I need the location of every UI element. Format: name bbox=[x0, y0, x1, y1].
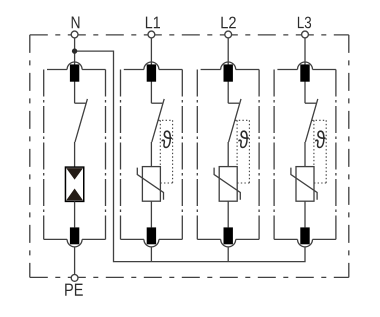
plug-in terminal block (top) N bbox=[67, 62, 82, 69]
terminal L1 (open circle) bbox=[148, 31, 155, 38]
thermal monitoring link L1 (dotted) bbox=[158, 120, 172, 183]
module enclosure box L2 varistor module (dash-dot outline) bbox=[197, 70, 259, 240]
wire N terminal to top terminal block bbox=[74, 38, 76, 103]
wire L2 terminal to top terminal block bbox=[227, 38, 229, 103]
label L3 bbox=[298, 17, 311, 29]
varistor RV3 (L3-N) bbox=[291, 167, 317, 202]
plug-in terminal block (bottom) N bbox=[67, 239, 82, 247]
wire switch to varistor L1 bbox=[150, 142, 152, 167]
label L2 bbox=[221, 17, 235, 29]
module enclosure box N-PE spark gap module (dash-dot outline) bbox=[44, 70, 106, 240]
plug-in terminal block (top) L1 bbox=[144, 62, 159, 69]
label N bbox=[72, 17, 80, 29]
spark gap F1 (N-PE gas discharge gap) bbox=[65, 167, 83, 201]
wire L1 bottom stub to bus bbox=[150, 247, 152, 262]
plug-in terminal block (bottom) L2 bbox=[221, 239, 236, 247]
plug-in terminal block (bottom) L3 bbox=[298, 239, 313, 247]
wire L1 terminal to top terminal block bbox=[150, 38, 152, 103]
module enclosure box L3 varistor module (dash-dot outline) bbox=[274, 70, 336, 240]
wire switch to varistor L3 bbox=[304, 142, 306, 167]
thermal disconnector switch N branch bbox=[75, 99, 88, 142]
node N junction dot bbox=[72, 48, 77, 53]
plug-in terminal block (top) L2 bbox=[221, 62, 236, 69]
wire switch to spark gap bbox=[74, 142, 76, 167]
thermal disconnector switch L1 branch bbox=[151, 99, 164, 142]
equipment enclosure boundary (dash-dot border) bbox=[30, 35, 349, 278]
thermal monitoring link L2 (dotted) bbox=[235, 120, 249, 183]
varistor RV2 (L2-N) bbox=[214, 167, 240, 202]
plug-in terminal block (bottom) L1 bbox=[144, 239, 159, 247]
plug-in terminal block (top) L3 bbox=[298, 62, 313, 69]
terminal L2 (open circle) bbox=[225, 31, 232, 38]
wire L3 terminal to top terminal block bbox=[304, 38, 306, 103]
varistor RV1 (L1-N) bbox=[137, 167, 163, 202]
thermal disconnector switch L2 branch bbox=[228, 99, 241, 142]
thermal disconnector switch L3 branch bbox=[305, 99, 318, 142]
wire L2 bottom stub to bus bbox=[227, 247, 229, 262]
temperature symbol ϑ L3 bbox=[315, 130, 325, 148]
wire spark gap to bottom terminal block bbox=[74, 201, 76, 227]
wire varistor to bottom terminal block L1 bbox=[150, 201, 152, 227]
temperature symbol ϑ L2 bbox=[238, 130, 248, 148]
wire varistor to bottom terminal block L3 bbox=[304, 201, 306, 227]
module enclosure box L1 varistor module (dash-dot outline) bbox=[121, 70, 183, 240]
terminal N (open circle) bbox=[71, 31, 78, 38]
terminal PE (open circle) bbox=[71, 275, 78, 282]
terminal L3 (open circle) bbox=[302, 31, 309, 38]
wire N bottom terminal to PE bbox=[74, 247, 76, 275]
temperature symbol ϑ L1 bbox=[162, 130, 172, 148]
wire N junction to bottom bus (riser) bbox=[75, 51, 305, 262]
wire switch to varistor L2 bbox=[227, 142, 229, 167]
thermal monitoring link L3 (dotted) bbox=[312, 120, 326, 183]
wire varistor to bottom terminal block L2 bbox=[227, 201, 229, 227]
label PE bbox=[65, 284, 83, 296]
label L1 bbox=[146, 17, 160, 29]
